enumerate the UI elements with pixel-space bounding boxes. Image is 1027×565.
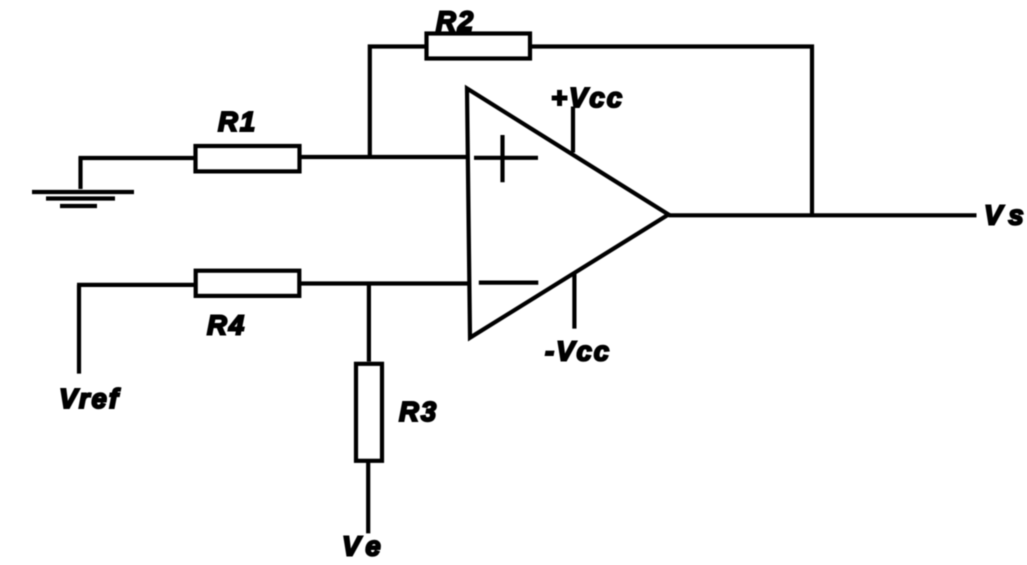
wire -Vcc stub [572, 273, 576, 329]
wire Vref to R4 [77, 283, 196, 287]
resistor R3 [356, 364, 382, 461]
wire +Vcc stub [571, 107, 575, 153]
svg-text:R1: R1 [218, 106, 257, 137]
wire Vref vertical [77, 285, 81, 374]
wire ground to R1 [79, 156, 197, 160]
ground [32, 157, 134, 206]
svg-text:R4: R4 [207, 310, 246, 341]
svg-text:R3: R3 [399, 396, 438, 427]
svg-text:+Vcc: +Vcc [551, 82, 624, 113]
op-amp plus input symbol [474, 135, 538, 182]
svg-text:R2: R2 [436, 6, 475, 37]
svg-text:Vref: Vref [59, 383, 121, 414]
wire R3 to Ve [366, 461, 370, 533]
wire output to Vs [669, 213, 977, 217]
wire junction to R3 [367, 284, 371, 362]
resistor R2 [427, 34, 531, 59]
wire feedback left vertical [370, 47, 427, 158]
svg-text:Ve: Ve [342, 531, 387, 562]
op-amp U1 [467, 89, 669, 338]
wire R4 to op-amp inverting input [299, 281, 469, 285]
resistor R4 [196, 271, 300, 296]
svg-text:-Vcc: -Vcc [545, 335, 611, 366]
wire R2 to output node [530, 47, 812, 216]
wire R1 to op-amp noninverting input [300, 155, 469, 159]
op-amp minus input symbol [479, 281, 539, 285]
resistor R1 [196, 146, 300, 171]
svg-text:Vs: Vs [984, 199, 1027, 230]
